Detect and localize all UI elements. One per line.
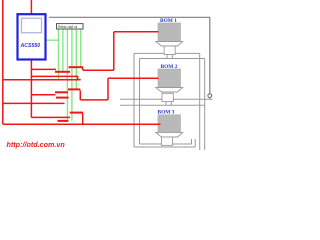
svg-text:http://otd.com.vn: http://otd.com.vn: [7, 140, 66, 149]
svg-text:BOM 1: BOM 1: [160, 18, 177, 24]
svg-text:BOM 3: BOM 3: [158, 109, 175, 115]
svg-text:ACS550: ACS550: [20, 43, 41, 49]
svg-text:Relay ngõ ra: Relay ngõ ra: [58, 25, 77, 29]
svg-text:BOM 2: BOM 2: [161, 64, 178, 70]
